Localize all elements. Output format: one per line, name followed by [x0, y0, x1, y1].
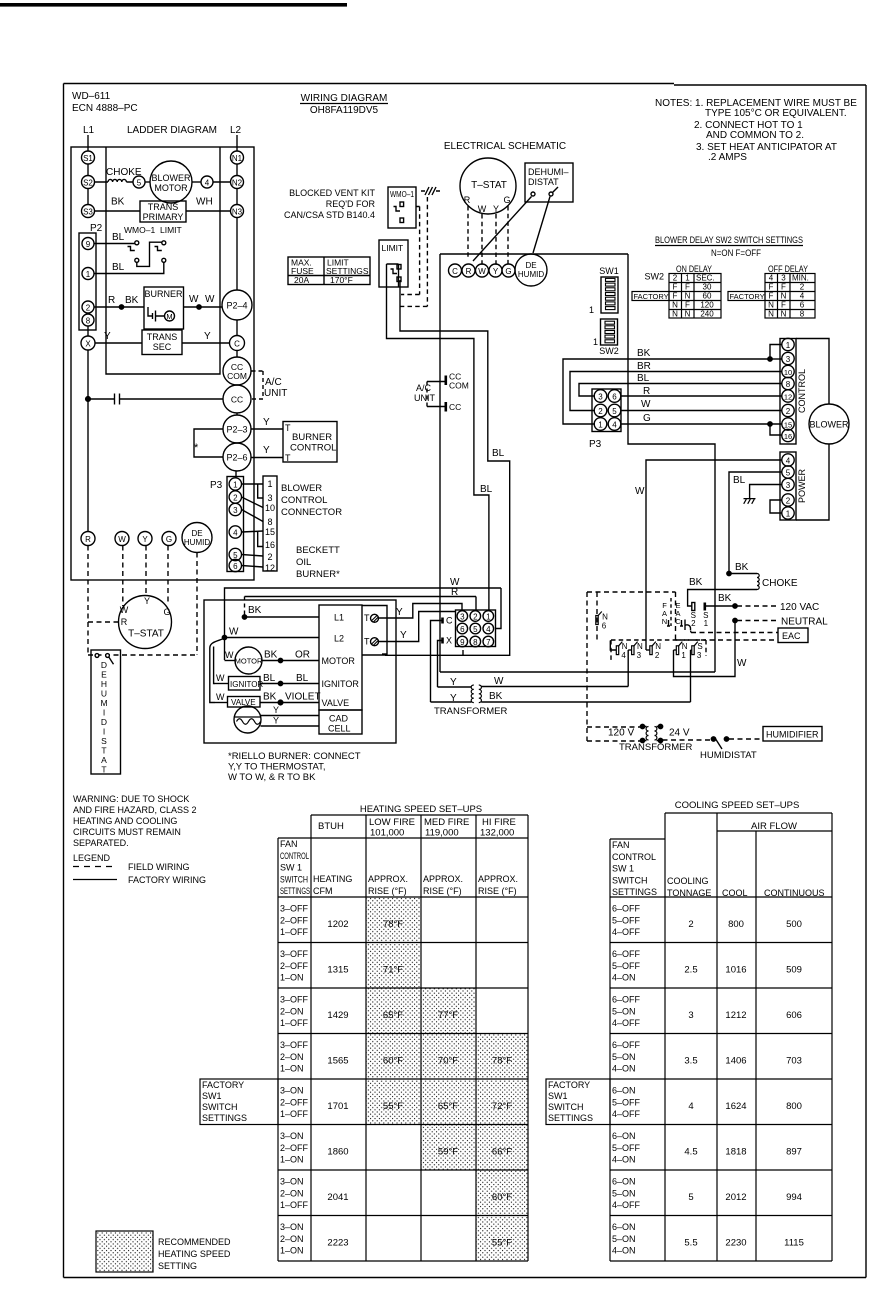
- svg-text:T–STAT: T–STAT: [471, 180, 507, 191]
- svg-text:SW1: SW1: [548, 1091, 568, 1101]
- svg-text:W: W: [229, 627, 239, 638]
- terminal P2-6: [223, 443, 251, 471]
- svg-text:X: X: [85, 340, 91, 349]
- wire 9 to WMO-1 contact: [94, 243, 136, 245]
- svg-text:4–OFF: 4–OFF: [612, 927, 641, 937]
- thermostat T-STAT circle: [119, 596, 172, 649]
- SW2 dip levers: [605, 321, 615, 343]
- svg-text:5: 5: [612, 407, 617, 416]
- svg-text:BK: BK: [111, 197, 125, 208]
- svg-text:R: R: [464, 195, 471, 205]
- svg-text:FACTORY: FACTORY: [634, 292, 669, 301]
- svg-text:DEHUMI–: DEHUMI–: [528, 167, 569, 177]
- svg-text:REQ'D FOR: REQ'D FOR: [326, 199, 376, 209]
- pin wires P3 to connector: [242, 484, 264, 498]
- burner internal ignition capacitor and motor: [148, 307, 165, 322]
- svg-text:W: W: [737, 658, 747, 669]
- terminal S2: [82, 176, 95, 189]
- wire motor to terminal MOTOR: [262, 660, 319, 662]
- wire BK to pin3: [770, 358, 782, 360]
- switch N4: [616, 646, 618, 655]
- wire N1-N2: [236, 164, 238, 176]
- svg-text:SWITCH: SWITCH: [202, 1102, 238, 1112]
- svg-text:C: C: [446, 616, 453, 626]
- svg-text:CONTROL: CONTROL: [290, 443, 336, 454]
- svg-text:AIR FLOW: AIR FLOW: [751, 821, 797, 832]
- svg-text:C: C: [452, 267, 458, 276]
- svg-text:E: E: [101, 670, 107, 680]
- terminal C block: [441, 618, 444, 624]
- factory sw1 box heating: [200, 1079, 278, 1125]
- fan eac tiny contacts: [667, 620, 683, 626]
- dashed 120 VAC lead: [737, 605, 778, 607]
- switch S3: [692, 646, 694, 655]
- svg-text:BL: BL: [637, 373, 650, 384]
- node dot R-BK: [119, 305, 123, 309]
- node dot W-W: [197, 305, 201, 309]
- svg-text:1818: 1818: [725, 1147, 746, 1158]
- wire transprimary-N3: [186, 210, 231, 212]
- terminal R: [81, 532, 95, 546]
- P3 pin 3: [229, 503, 241, 515]
- svg-text:55°F: 55°F: [383, 1101, 403, 1112]
- svg-text:N: N: [672, 310, 678, 319]
- svg-text:3: 3: [786, 355, 791, 364]
- svg-text:P3: P3: [210, 480, 223, 491]
- svg-text:1: 1: [593, 337, 598, 347]
- svg-text:55°F: 55°F: [492, 1238, 512, 1249]
- svg-text:N: N: [637, 642, 643, 651]
- svg-text:W: W: [478, 267, 486, 276]
- svg-text:1115: 1115: [784, 1238, 804, 1249]
- svg-text:2–OFF: 2–OFF: [280, 1143, 309, 1153]
- svg-text:5–OFF: 5–OFF: [612, 915, 641, 925]
- svg-text:1: 1: [86, 270, 91, 279]
- svg-text:CONNECTOR: CONNECTOR: [281, 507, 342, 518]
- svg-text:4–OFF: 4–OFF: [612, 1018, 641, 1028]
- svg-text:78°F: 78°F: [383, 919, 403, 930]
- svg-text:6–ON: 6–ON: [612, 1086, 636, 1096]
- terminal CC COM: [223, 357, 251, 385]
- ground symbol: [744, 499, 756, 504]
- wire R P3-6 to control pin12: [621, 395, 783, 397]
- svg-text:1016: 1016: [725, 965, 746, 976]
- P3 pin 5: [229, 548, 241, 560]
- svg-text:6–OFF: 6–OFF: [612, 1040, 641, 1050]
- wire 8-X rail: [87, 326, 89, 337]
- wire valve to terminal: [260, 702, 319, 704]
- svg-text:T: T: [101, 746, 106, 756]
- svg-text:F: F: [769, 283, 774, 292]
- svg-text:TRANS: TRANS: [147, 332, 178, 342]
- terminal C schematic: [449, 264, 462, 277]
- svg-text:12: 12: [265, 563, 275, 573]
- svg-text:ON DELAY: ON DELAY: [676, 264, 712, 274]
- label BLOWER CONTROL CONNECTOR: [281, 483, 342, 518]
- svg-text:LIMIT: LIMIT: [382, 243, 404, 253]
- wire N2-N3: [236, 189, 238, 205]
- svg-text:SW 1: SW 1: [280, 863, 302, 873]
- svg-text:3–OFF: 3–OFF: [280, 904, 309, 914]
- svg-text:HEATING SPEED: HEATING SPEED: [158, 1249, 231, 1259]
- svg-text:IGNITOR: IGNITOR: [322, 679, 360, 689]
- transformer primary box: [140, 201, 186, 222]
- svg-text:2: 2: [688, 919, 693, 930]
- svg-text:*RIELLO BURNER: CONNECT: *RIELLO BURNER: CONNECT: [228, 751, 361, 762]
- dehumidistat switch contacts: [95, 654, 99, 658]
- svg-text:1860: 1860: [327, 1147, 348, 1158]
- svg-text:F: F: [673, 283, 678, 292]
- wire trans sec to C: [182, 342, 230, 344]
- svg-text:16: 16: [265, 540, 275, 550]
- factory sw1 box cooling: [546, 1079, 610, 1125]
- svg-text:H: H: [101, 679, 107, 689]
- wire Y2 T2 to block: [378, 612, 456, 642]
- svg-text:101,000: 101,000: [370, 828, 404, 839]
- svg-text:P2–4: P2–4: [226, 301, 247, 311]
- wire W from transformer to N3: [481, 686, 628, 688]
- svg-text:BL: BL: [492, 448, 505, 459]
- heating header texts: [280, 817, 518, 896]
- wire N3 to P2-4: [236, 218, 238, 291]
- wire C terminal to transformer: [431, 701, 472, 703]
- svg-text:Y: Y: [144, 596, 150, 606]
- svg-text:COM: COM: [227, 371, 247, 381]
- connector P2 box: [79, 233, 96, 330]
- switch N3: [632, 646, 634, 655]
- P3 pin 6: [229, 559, 241, 571]
- wire BK dot to L1: [245, 616, 320, 618]
- wire schematic top edge: [440, 253, 628, 255]
- svg-text:2–ON: 2–ON: [280, 1188, 304, 1198]
- svg-text:UNIT: UNIT: [264, 388, 287, 399]
- svg-text:5–ON: 5–ON: [612, 1188, 636, 1198]
- wire B limit to pin1 BL: [387, 287, 489, 611]
- humidifier box: [763, 727, 822, 742]
- connector P3 ladder box: [227, 477, 244, 572]
- svg-text:BK: BK: [735, 562, 749, 573]
- P3 pin 2: [229, 491, 241, 503]
- P3 pin 5: [608, 404, 621, 417]
- svg-text:S1: S1: [83, 154, 93, 163]
- hook wire W to ignitor and valve: [210, 639, 223, 703]
- svg-text:HUMIDIFIER: HUMIDIFIER: [766, 730, 819, 740]
- svg-text:6: 6: [460, 625, 465, 634]
- svg-text:CC: CC: [231, 395, 243, 405]
- ladder inner rails: [106, 147, 220, 374]
- dashed NEUTRAL lead: [737, 620, 778, 622]
- svg-text:800: 800: [786, 1101, 802, 1112]
- terminal Y: [138, 532, 152, 546]
- svg-text:SETTINGS: SETTINGS: [202, 1113, 247, 1123]
- svg-text:Y: Y: [104, 331, 111, 342]
- svg-text:70°F: 70°F: [438, 1056, 458, 1067]
- svg-text:BL: BL: [480, 484, 493, 495]
- dashed field wire W: [122, 546, 124, 607]
- svg-text:P3: P3: [589, 439, 602, 450]
- svg-text:4: 4: [205, 179, 210, 188]
- svg-text:SETTINGS: SETTINGS: [280, 886, 310, 896]
- switch LIMIT ladder contact: [155, 241, 166, 262]
- svg-text:R: R: [451, 587, 458, 598]
- svg-text:S3: S3: [83, 208, 93, 217]
- ladder outer box: [71, 147, 254, 580]
- dashed tstat drop Y: [495, 214, 497, 265]
- svg-text:4–ON: 4–ON: [612, 1064, 636, 1074]
- node dot BK-L1: [242, 615, 246, 619]
- svg-text:W: W: [118, 535, 126, 544]
- wire WMO-1 to LIMIT bridge: [137, 242, 162, 266]
- humidistat contacts: [711, 737, 715, 741]
- switch N1: [676, 646, 678, 655]
- svg-text:132,000: 132,000: [480, 828, 514, 839]
- svg-text:120 VAC: 120 VAC: [780, 602, 819, 613]
- svg-text:WMO–1: WMO–1: [124, 225, 155, 235]
- wire C to CC COM: [236, 351, 238, 358]
- svg-text:5: 5: [137, 179, 142, 188]
- svg-text:HEATING AND COOLING: HEATING AND COOLING: [73, 816, 177, 826]
- svg-text:APPROX.: APPROX.: [478, 874, 518, 884]
- node dot BK: [768, 357, 772, 361]
- wire left vertical main: [439, 254, 441, 672]
- dashed switch row box: [611, 640, 706, 660]
- svg-text:2–OFF: 2–OFF: [280, 961, 309, 971]
- svg-text:L2: L2: [334, 634, 344, 644]
- svg-text:L1: L1: [83, 125, 95, 136]
- svg-text:MED FIRE: MED FIRE: [424, 817, 469, 828]
- label BECKETT OIL BURNER: [296, 545, 340, 580]
- svg-text:P2–3: P2–3: [226, 425, 247, 435]
- svg-text:VIOLET: VIOLET: [285, 692, 321, 703]
- wire X terminal to transformer: [438, 686, 472, 688]
- svg-text:ELECTRICAL SCHEMATIC: ELECTRICAL SCHEMATIC: [444, 141, 566, 152]
- dashed WMO-1 drop 1: [401, 207, 420, 295]
- svg-text:DE: DE: [525, 261, 536, 270]
- svg-text:4–ON: 4–ON: [612, 973, 636, 983]
- switch N2: [650, 646, 652, 655]
- svg-text:77°F: 77°F: [438, 1010, 458, 1021]
- svg-text:6–OFF: 6–OFF: [612, 995, 641, 1005]
- svg-text:N: N: [768, 310, 774, 319]
- svg-text:4–ON: 4–ON: [612, 1155, 636, 1165]
- svg-text:R: R: [85, 535, 91, 544]
- svg-text:5: 5: [473, 625, 478, 634]
- svg-text:20A: 20A: [294, 275, 309, 285]
- svg-text:T: T: [101, 765, 106, 775]
- svg-text:1565: 1565: [327, 1056, 348, 1067]
- svg-text:509: 509: [786, 965, 802, 976]
- svg-text:240: 240: [700, 310, 714, 319]
- burner assembly outer box: [204, 600, 396, 743]
- svg-text:M: M: [100, 698, 107, 708]
- valve box: [228, 697, 261, 708]
- wire 1 to LIMIT contact: [94, 262, 164, 273]
- svg-text:RISE (°F): RISE (°F): [423, 886, 462, 896]
- svg-text:BL: BL: [112, 262, 125, 273]
- svg-text:CELL: CELL: [328, 724, 351, 734]
- svg-text:2–OFF: 2–OFF: [280, 915, 309, 925]
- wire G P3-4 to control pin15: [621, 423, 771, 425]
- connector CONTROL box: [780, 339, 796, 445]
- svg-text:AND COMMON TO 2.: AND COMMON TO 2.: [706, 130, 804, 141]
- node dot motor OR: [278, 658, 282, 662]
- wire S1-S2: [87, 164, 89, 176]
- svg-text:G: G: [505, 267, 511, 276]
- dashed field wire Y: [145, 546, 147, 595]
- svg-text:1: 1: [681, 651, 686, 660]
- svg-text:8: 8: [800, 310, 805, 319]
- underline for wiring diagram: [300, 103, 388, 105]
- wire W to ignitor: [214, 683, 229, 685]
- wire W to valve: [215, 702, 228, 704]
- factory box off delay: [728, 292, 765, 301]
- T2 lead dots: [640, 724, 644, 728]
- svg-text:7: 7: [486, 638, 491, 647]
- terminal N2: [231, 176, 244, 189]
- dashed WMO-1 drop 2: [401, 197, 428, 306]
- pin 2: [82, 301, 94, 313]
- wire R from pin2 over to burner: [245, 597, 477, 611]
- cooling table grid: [610, 813, 832, 1261]
- svg-text:4–OFF: 4–OFF: [612, 1109, 641, 1119]
- burner motor circle: [235, 647, 262, 674]
- svg-text:1: 1: [786, 341, 791, 350]
- svg-text:G: G: [163, 607, 170, 617]
- pin 9: [82, 238, 94, 250]
- power pins 4 5 3 2 1: [782, 454, 794, 519]
- svg-text:U: U: [101, 689, 107, 699]
- transformer secondary box: [142, 330, 182, 355]
- blower motor M1: [150, 161, 192, 203]
- svg-text:BK: BK: [718, 593, 732, 604]
- svg-text:800: 800: [728, 919, 744, 930]
- blower motor circle: [809, 404, 849, 444]
- svg-text:16: 16: [784, 432, 792, 441]
- wire ignitor to terminal: [260, 683, 319, 685]
- svg-text:1–OFF: 1–OFF: [280, 1018, 309, 1028]
- svg-text:T: T: [285, 453, 291, 463]
- svg-text:BK: BK: [637, 348, 651, 359]
- svg-text:1: 1: [486, 613, 491, 622]
- A/C unit terminal CC COM: [444, 376, 447, 386]
- svg-text:1: 1: [589, 305, 594, 315]
- svg-text:1202: 1202: [327, 919, 348, 930]
- svg-text:4: 4: [800, 292, 805, 301]
- svg-text:2012: 2012: [725, 1192, 746, 1203]
- svg-text:60°F: 60°F: [383, 1056, 403, 1067]
- svg-text:120 V: 120 V: [608, 728, 634, 739]
- wire S3-transprimary: [95, 210, 141, 212]
- svg-text:Y: Y: [142, 535, 148, 544]
- terminal C: [230, 336, 245, 351]
- svg-text:3: 3: [460, 613, 465, 622]
- svg-text:CONTINUOUS: CONTINUOUS: [764, 888, 825, 898]
- dashed tstat drop R: [467, 206, 469, 260]
- svg-text:170°F: 170°F: [330, 275, 353, 285]
- svg-text:RISE (°F): RISE (°F): [368, 886, 407, 896]
- warning text block: [73, 794, 197, 863]
- svg-text:BK: BK: [125, 295, 139, 306]
- svg-text:CC: CC: [449, 402, 461, 412]
- svg-text:SWITCH: SWITCH: [548, 1102, 584, 1112]
- wire W to motor: [225, 660, 236, 662]
- dashed inner drop N6: [596, 592, 598, 640]
- jumper loop P2-3 P2-6: [194, 429, 223, 457]
- svg-text:1315: 1315: [327, 965, 348, 976]
- svg-text:N: N: [682, 642, 688, 651]
- svg-text:F: F: [781, 283, 786, 292]
- svg-text:2041: 2041: [327, 1192, 348, 1203]
- svg-text:71°F: 71°F: [383, 965, 403, 976]
- wire Y1 T1 to pin3 block: [378, 604, 462, 619]
- svg-text:4: 4: [769, 274, 774, 283]
- dashed humidistat to humidifier: [729, 738, 763, 740]
- svg-text:BLOWER: BLOWER: [281, 483, 322, 494]
- svg-text:A: A: [101, 755, 107, 765]
- node dot ignitor: [278, 681, 282, 685]
- svg-text:I: I: [103, 727, 105, 737]
- svg-text:R: R: [466, 267, 472, 276]
- dashed field enclosure left: [587, 592, 676, 741]
- shaded recommended cells: [366, 897, 528, 1261]
- svg-text:SEPARATED.: SEPARATED.: [73, 838, 129, 848]
- svg-text:N=ON F=OFF: N=ON F=OFF: [711, 248, 761, 258]
- node dot X rail: [86, 397, 91, 402]
- svg-text:15: 15: [265, 527, 275, 537]
- svg-text:SW1: SW1: [202, 1091, 222, 1101]
- terminal X block: [441, 638, 444, 644]
- svg-text:L1: L1: [334, 613, 344, 623]
- wire P2-6 to P3: [235, 471, 237, 478]
- limit inner compartment: [387, 264, 399, 287]
- wire power pin5 BL down: [729, 472, 782, 573]
- svg-text:RISE (°F): RISE (°F): [478, 886, 517, 896]
- svg-text:3–ON: 3–ON: [280, 1177, 304, 1187]
- svg-text:S: S: [101, 736, 107, 746]
- svg-text:500: 500: [786, 919, 802, 930]
- svg-text:2.5: 2.5: [684, 965, 697, 976]
- connector P3 schematic box: [592, 389, 621, 432]
- svg-text:F: F: [673, 292, 678, 301]
- node dot neutral: [733, 618, 737, 622]
- svg-text:CIRCUITS MUST REMAIN: CIRCUITS MUST REMAIN: [73, 827, 181, 837]
- dashed A/C unit bracket: [252, 371, 264, 399]
- vertical label DEHUMIDISTAT: [100, 660, 107, 775]
- dashed field wire DEHUMID: [196, 553, 198, 656]
- svg-text:BTUH: BTUH: [318, 821, 344, 832]
- terminal N1: [231, 151, 244, 164]
- svg-text:FACTORY: FACTORY: [730, 292, 765, 301]
- oil burner box: [144, 287, 184, 329]
- svg-text:CFM: CFM: [313, 886, 333, 896]
- svg-text:T–STAT: T–STAT: [128, 629, 164, 640]
- dashed EAC wire lower: [676, 639, 779, 641]
- svg-text:BK: BK: [489, 691, 503, 702]
- svg-text:2: 2: [598, 407, 603, 416]
- svg-text:4–ON: 4–ON: [612, 1246, 636, 1256]
- heating data rows: [280, 904, 512, 1256]
- svg-text:3: 3: [786, 481, 791, 490]
- burner control box: [283, 422, 337, 463]
- label BLOCKED VENT KIT: [284, 188, 376, 220]
- svg-text:65°F: 65°F: [383, 1010, 403, 1021]
- svg-text:OH8FA119DV5: OH8FA119DV5: [310, 105, 379, 116]
- svg-text:HUMIDISTAT: HUMIDISTAT: [700, 750, 757, 761]
- svg-text:3–ON: 3–ON: [280, 1131, 304, 1141]
- svg-text:ECN 4888–PC: ECN 4888–PC: [72, 103, 138, 114]
- svg-text:N3: N3: [232, 208, 243, 217]
- svg-text:BURNER*: BURNER*: [296, 569, 340, 580]
